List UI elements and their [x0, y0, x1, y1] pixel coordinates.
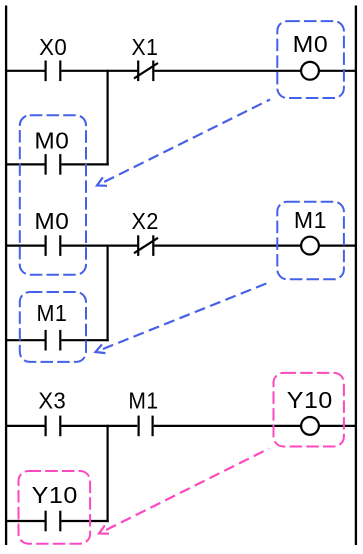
wire branch1 vertical	[106, 70, 108, 166]
wire rung2: M0 to X2	[61, 245, 137, 247]
wire branch1: rail to M0 contact	[5, 163, 45, 165]
wire rung3: coil Y10 to rail	[320, 425, 358, 427]
contact X2 (normally closed)	[132, 208, 159, 256]
wire rung1: X1 to coil M0	[154, 70, 300, 72]
wire branch3: Y10 contact to vertical	[61, 520, 108, 522]
wire rung2: X2 to coil M1	[154, 245, 300, 247]
wire rung1: coil M0 to rail	[320, 70, 358, 72]
arrow from coil M0 box to M0 contacts box	[97, 100, 270, 186]
wire rung3: rail to X3	[5, 425, 45, 427]
svg-text:X0: X0	[39, 34, 67, 60]
coil Y10	[287, 387, 333, 435]
wire branch3: rail to Y10 contact	[5, 520, 45, 522]
svg-text:M0: M0	[34, 127, 69, 153]
contact M0 (seal-in branch)	[34, 127, 69, 174]
contact Y10 (branch)	[32, 482, 78, 532]
contact M0 (rung2)	[34, 208, 69, 256]
svg-text:Y10: Y10	[32, 482, 78, 508]
wire rung2: coil M1 to rail	[320, 245, 358, 247]
wire rung1: X0 to X1	[61, 70, 137, 72]
highlight box around coil M0	[277, 21, 344, 98]
right power rail	[355, 6, 357, 546]
wire branch2 vertical	[106, 245, 108, 342]
wire rung3: X3 to M1	[61, 425, 137, 427]
highlight box around both M0 contacts	[20, 115, 86, 274]
svg-text:M1: M1	[37, 300, 68, 326]
svg-text:Y10: Y10	[287, 387, 333, 413]
contact X0	[39, 34, 67, 81]
svg-text:X2: X2	[132, 208, 159, 234]
svg-text:M1: M1	[294, 207, 327, 233]
wire rung1: rail to X0	[5, 70, 45, 72]
contact X1 (normally closed)	[132, 34, 159, 81]
coil M1	[294, 207, 327, 254]
svg-text:M0: M0	[293, 31, 329, 57]
wire branch2: M1 contact to vertical	[61, 339, 108, 341]
contact M1 (seal-in branch)	[37, 300, 68, 351]
highlight box around Y10 contact	[19, 471, 91, 544]
wire rung2: rail to M0	[5, 245, 45, 247]
contact M1 (rung3)	[128, 388, 158, 437]
wire branch1: M0 contact to vertical	[61, 163, 108, 165]
highlight box around coil Y10	[274, 373, 344, 447]
arrow from coil Y10 box to Y10 contact box	[99, 449, 269, 534]
highlight box around coil M1	[277, 202, 344, 280]
wire rung3: M1 to coil Y10	[154, 425, 301, 427]
svg-text:M1: M1	[128, 388, 158, 414]
wire branch2: rail to M1 contact	[5, 339, 45, 341]
svg-text:M0: M0	[34, 208, 69, 234]
svg-text:X3: X3	[38, 388, 66, 414]
arrow from coil M1 box to M1 contact box	[96, 282, 271, 353]
left power rail	[5, 6, 7, 546]
wire branch3 vertical	[106, 425, 108, 522]
coil M0	[293, 31, 329, 79]
contact X3	[38, 388, 66, 437]
highlight box around M1 contact	[20, 292, 86, 362]
svg-text:X1: X1	[132, 34, 159, 60]
